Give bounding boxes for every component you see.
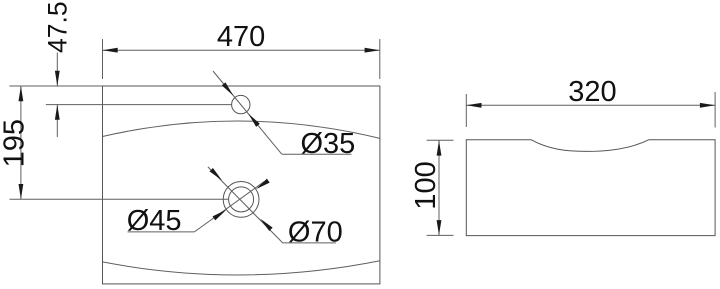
arrow 100 bottom bbox=[437, 220, 442, 235]
dim 470 left extension line bbox=[102, 39, 104, 79]
dim 470 right extension line bbox=[379, 39, 381, 79]
drain outer circle bbox=[223, 182, 259, 218]
arrow drain inner SW bbox=[213, 210, 227, 221]
arrow drain inner NE bbox=[256, 179, 270, 190]
svg-text:47.5: 47.5 bbox=[43, 1, 73, 53]
leader line for faucet hole bbox=[213, 71, 282, 154]
svg-text:320: 320 bbox=[568, 76, 616, 108]
dim 195 dimension line bbox=[20, 86, 22, 199]
side view outline bbox=[466, 140, 715, 236]
leader line for drain inner circle bbox=[194, 182, 264, 232]
leader line for drain outer circle bbox=[208, 167, 283, 243]
dim 100 bottom tick bbox=[427, 234, 454, 236]
dim 320 left extension line bbox=[465, 94, 467, 127]
arrow 320 right bbox=[700, 103, 715, 108]
dim 100 top tick bbox=[427, 139, 454, 141]
arrow 195 top bbox=[19, 86, 24, 101]
svg-text:470: 470 bbox=[217, 21, 265, 53]
dim 470 dimension line bbox=[103, 49, 380, 51]
arrow 320 left bbox=[466, 103, 481, 108]
arrow 470 right bbox=[365, 48, 380, 53]
basin top inner curve bbox=[103, 121, 380, 138]
arrow drain outer SE bbox=[260, 219, 272, 231]
drain inner circle bbox=[229, 187, 254, 212]
arrow 47.5 lower bbox=[55, 105, 60, 120]
svg-text:Ø70: Ø70 bbox=[288, 217, 343, 249]
basin bottom inner curve bbox=[103, 261, 380, 275]
underline of Ø35 label bbox=[282, 153, 352, 155]
arrow 195 bottom bbox=[19, 184, 24, 199]
svg-text:100: 100 bbox=[410, 161, 442, 209]
arrow 47.5 upper bbox=[55, 71, 60, 86]
ref line faucet center bbox=[46, 104, 232, 106]
dim 320 dimension line bbox=[466, 104, 715, 106]
arrow 470 left bbox=[103, 48, 118, 53]
arrow faucet NW bbox=[222, 82, 234, 95]
svg-text:195: 195 bbox=[0, 119, 31, 167]
svg-text:Ø35: Ø35 bbox=[301, 128, 356, 160]
ref line drain center bbox=[10, 198, 229, 200]
underline of Ø70 label bbox=[283, 242, 336, 244]
basin outer rectangle (top view) bbox=[103, 86, 380, 284]
dim 47.5 line lower segment bbox=[56, 105, 58, 137]
underline of Ø45 label bbox=[128, 231, 195, 233]
dim 47.5 line upper segment bbox=[56, 53, 58, 87]
arrow 100 top bbox=[437, 140, 442, 155]
ref line top edge extension bbox=[9, 85, 102, 87]
svg-text:Ø45: Ø45 bbox=[127, 205, 182, 237]
dim 320 right extension line bbox=[714, 92, 716, 128]
arrow drain outer NW bbox=[210, 168, 222, 180]
dim 100 dimension line bbox=[438, 140, 440, 235]
arrow faucet SE bbox=[248, 114, 260, 127]
faucet hole circle bbox=[232, 95, 250, 113]
